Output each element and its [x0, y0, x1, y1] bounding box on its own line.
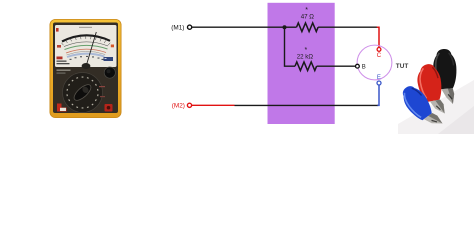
photo backdrop shading: [398, 80, 474, 134]
terminal M1: [188, 25, 192, 29]
svg-text:TUT: TUT: [396, 63, 409, 70]
blue clip: [397, 82, 444, 135]
resistor R1 47 ohm: [297, 23, 319, 32]
svg-text:C: C: [377, 53, 382, 59]
junction node: [283, 25, 287, 29]
needle pivot: [82, 63, 91, 69]
wire E down (blue): [377, 85, 379, 105]
dial number rows: [70, 56, 104, 60]
dial red corner marks: [56, 28, 59, 32]
wire R2 to B: [317, 65, 355, 67]
svg-text:B: B: [362, 65, 366, 71]
red clip: [415, 62, 447, 117]
meter front panel: [53, 23, 118, 114]
terminal B: [356, 64, 360, 68]
terminal E: [377, 81, 381, 85]
svg-text:E: E: [377, 75, 381, 81]
svg-text:*: *: [305, 7, 308, 14]
dial lower band: [67, 54, 105, 57]
dial block bottom-right: [104, 57, 114, 61]
purple highlight region: [268, 3, 335, 124]
alligator clips photo: [397, 48, 474, 134]
dial tick fan: [61, 36, 110, 45]
terminal M2: [187, 103, 191, 107]
resistor R2 22 kohm: [295, 62, 317, 71]
wire junction to R1: [285, 26, 297, 28]
meter dial face: [55, 25, 117, 67]
multimeter photo: [50, 19, 122, 118]
dial red arc: [66, 49, 106, 53]
terminal C: [377, 48, 381, 52]
wire junction down to R2: [285, 27, 296, 66]
rotary knob: [72, 82, 94, 103]
dial green arc: [65, 45, 108, 49]
wire M2 black segment: [235, 104, 378, 106]
red terminal bottom-right: [105, 104, 113, 112]
svg-text:22 kΩ: 22 kΩ: [297, 54, 314, 61]
wire corner to C (red): [377, 27, 379, 47]
dial mirror arc: [62, 35, 110, 41]
meter needle: [86, 32, 96, 66]
dial second arc: [64, 42, 108, 47]
rotary selector ring: [63, 73, 103, 113]
transistor under test circle: [357, 45, 392, 80]
red corner mark bottom-left: [57, 104, 67, 112]
wire M1 to junction: [192, 26, 285, 28]
zero adjust knob: [104, 67, 115, 78]
panel small text: [57, 70, 71, 71]
dial small text bottom-left: [57, 27, 93, 65]
svg-text:*: *: [305, 47, 308, 54]
svg-text:(M2): (M2): [172, 103, 185, 110]
svg-text:47 Ω: 47 Ω: [301, 14, 315, 21]
svg-text:(M1): (M1): [171, 24, 184, 31]
wire M2 red segment: [192, 104, 235, 106]
wire R1 to corner: [318, 26, 377, 28]
black clip: [432, 48, 459, 105]
